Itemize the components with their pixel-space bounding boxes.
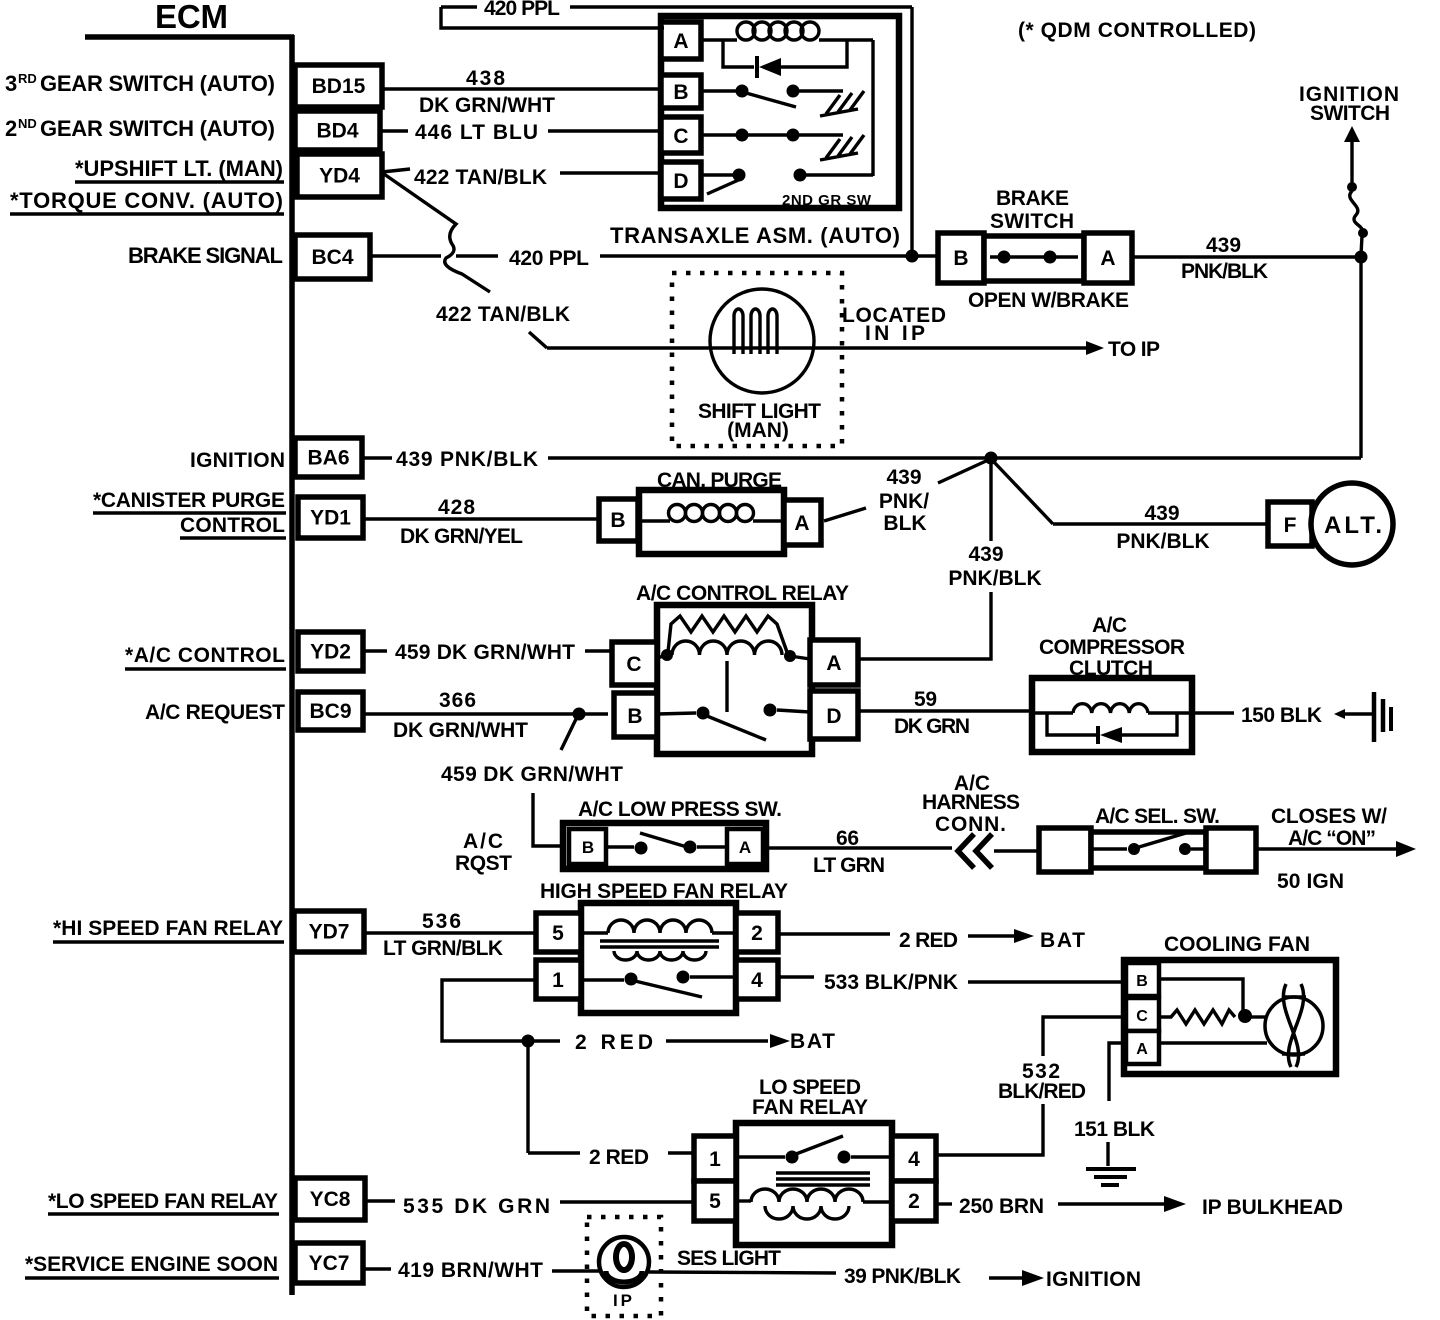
ECM pin BA6 xyxy=(295,438,362,477)
wire 428 DK GRN/YEL xyxy=(363,496,599,548)
svg-text:4: 4 xyxy=(908,1148,920,1171)
lo relay switch xyxy=(736,1136,892,1164)
junction node 2 RED xyxy=(522,1035,535,1048)
transaxle 2nd gr sw (pin D row) xyxy=(701,169,873,195)
case ground rake upper xyxy=(820,91,864,116)
svg-text:BC9: BC9 xyxy=(309,700,351,723)
label a/c rqst xyxy=(455,830,512,875)
wire label to junction xyxy=(938,461,986,483)
ECM pin YD1 xyxy=(298,497,363,538)
wire 422 TAN/BLK YD4 to pin D xyxy=(382,166,661,189)
svg-text:39 PNK/BLK: 39 PNK/BLK xyxy=(844,1265,961,1288)
label lo speed fan relay xyxy=(48,1190,279,1214)
ECM connector vertical edge line xyxy=(289,35,295,1295)
label closes w/ a/c on xyxy=(1271,805,1387,850)
transaxle pin C xyxy=(661,117,701,153)
svg-text:RD: RD xyxy=(18,71,37,86)
a/c relay switch xyxy=(657,704,810,741)
svg-text:B: B xyxy=(582,838,594,857)
label hi speed fan relay xyxy=(53,917,284,942)
svg-text:BAT: BAT xyxy=(790,1030,835,1053)
svg-text:428: 428 xyxy=(438,496,475,519)
svg-text:CAN. PURGE: CAN. PURGE xyxy=(657,469,782,492)
svg-text:IP BULKHEAD: IP BULKHEAD xyxy=(1202,1196,1343,1219)
wire 150 BLK xyxy=(1192,704,1372,727)
wire bracket to transaxle pin A xyxy=(441,7,664,28)
svg-text:420 PPL: 420 PPL xyxy=(509,247,589,270)
transaxle outer box xyxy=(661,16,899,208)
svg-text:A/C “ON”: A/C “ON” xyxy=(1288,827,1376,850)
svg-text:2: 2 xyxy=(751,922,763,945)
svg-text:A: A xyxy=(826,652,841,675)
label ignition xyxy=(190,449,285,472)
a/c sel sw body xyxy=(1091,832,1206,868)
svg-text:2: 2 xyxy=(5,116,17,141)
label 50 ign xyxy=(1277,870,1344,893)
svg-text:CONTROL: CONTROL xyxy=(180,514,285,537)
svg-text:*TORQUE CONV. (AUTO): *TORQUE CONV. (AUTO) xyxy=(10,188,283,213)
label ignition switch xyxy=(1299,83,1399,125)
label qdm controlled xyxy=(1018,19,1256,42)
label 439 pnk/blk stack xyxy=(879,466,929,535)
ECM pin YC7 xyxy=(295,1243,363,1283)
svg-text:PNK/BLK: PNK/BLK xyxy=(1181,260,1268,283)
svg-text:A/C REQUEST: A/C REQUEST xyxy=(145,701,285,724)
wire squiggle YD4 branch xyxy=(384,174,490,292)
ECM pin YD7 xyxy=(294,911,364,952)
a/c relay pin C xyxy=(612,642,657,685)
svg-text:*CANISTER PURGE: *CANISTER PURGE xyxy=(93,489,285,512)
a/c sel sw left pin xyxy=(1039,828,1091,872)
wire pin1 to 2 RED junction xyxy=(442,980,835,1054)
svg-text:B: B xyxy=(953,247,968,270)
svg-text:YD7: YD7 xyxy=(309,921,350,944)
svg-text:F: F xyxy=(1284,514,1297,537)
shift light bulb xyxy=(710,289,814,393)
svg-text:4: 4 xyxy=(751,969,763,992)
svg-text:B: B xyxy=(673,81,688,104)
label upshift lt (man) xyxy=(75,156,284,182)
svg-text:439: 439 xyxy=(968,543,1003,566)
junction brake signal node xyxy=(906,250,919,263)
svg-text:439 PNK/BLK: 439 PNK/BLK xyxy=(396,448,538,471)
lo relay pin 1 xyxy=(694,1136,736,1181)
svg-text:PNK/: PNK/ xyxy=(879,490,929,513)
svg-text:(* QDM CONTROLLED): (* QDM CONTROLLED) xyxy=(1018,19,1256,42)
svg-text:5: 5 xyxy=(552,922,564,945)
a/c relay coil xyxy=(657,641,810,662)
fan resistor xyxy=(1159,1010,1235,1024)
svg-text:IN IP: IN IP xyxy=(865,322,925,345)
svg-text:BLK: BLK xyxy=(883,512,926,535)
canister purge body xyxy=(639,490,784,554)
label can purge xyxy=(657,469,782,492)
svg-text:535 DK GRN: 535 DK GRN xyxy=(403,1195,550,1218)
lo speed fan relay box xyxy=(736,1123,892,1245)
wire 446 LT BLU BD4 to pin C xyxy=(378,121,661,144)
case ground rake lower xyxy=(820,135,864,160)
svg-text:C: C xyxy=(626,653,641,676)
fan blades xyxy=(1282,984,1306,1067)
label service engine soon xyxy=(25,1253,279,1278)
svg-text:YD2: YD2 xyxy=(310,641,351,664)
svg-text:420 PPL: 420 PPL xyxy=(484,0,560,20)
a/c low press switch body xyxy=(563,823,766,869)
svg-text:LT GRN/BLK: LT GRN/BLK xyxy=(383,937,503,960)
svg-text:439: 439 xyxy=(1206,234,1241,257)
label brake switch xyxy=(990,187,1074,233)
hs relay switch xyxy=(581,971,736,998)
svg-text:422 TAN/BLK: 422 TAN/BLK xyxy=(414,166,547,189)
label lo speed fan relay xyxy=(752,1076,868,1119)
shift light dotted box xyxy=(672,273,842,446)
wire purge A to label xyxy=(824,508,866,521)
brake switch pin A xyxy=(1084,233,1132,283)
svg-text:SWITCH: SWITCH xyxy=(990,210,1074,233)
label transaxle asm (auto) xyxy=(610,223,900,248)
svg-text:FAN RELAY: FAN RELAY xyxy=(752,1096,868,1119)
svg-text:YD4: YD4 xyxy=(319,165,360,188)
hs relay pin 5 xyxy=(536,913,581,952)
wire 419 BRN/WHT xyxy=(363,1259,601,1282)
svg-text:DK GRN/WHT: DK GRN/WHT xyxy=(393,719,528,742)
svg-text:SES LIGHT: SES LIGHT xyxy=(677,1247,781,1270)
svg-text:C: C xyxy=(673,125,688,148)
wire 533 BLK/PNK xyxy=(778,971,1126,994)
svg-text:D: D xyxy=(826,705,841,728)
ECM pin YD2 xyxy=(298,632,363,671)
svg-text:59: 59 xyxy=(914,688,937,711)
wire junction down to relay pin A xyxy=(858,458,1042,659)
label a/c low press sw xyxy=(578,798,782,821)
svg-text:66: 66 xyxy=(836,827,859,850)
svg-text:438: 438 xyxy=(466,67,505,90)
label torque conv (auto) xyxy=(10,188,284,214)
label brake signal xyxy=(128,243,283,268)
svg-text:2: 2 xyxy=(908,1190,920,1213)
label canister purge control xyxy=(93,489,286,538)
label 2nd gr sw xyxy=(782,192,872,209)
wire 459 DK GRN/WHT YD2 xyxy=(363,641,612,664)
svg-text:D: D xyxy=(673,170,688,193)
earth ground 151 xyxy=(1086,1169,1136,1185)
svg-text:YC8: YC8 xyxy=(310,1188,351,1211)
svg-text:BA6: BA6 xyxy=(307,447,349,470)
svg-text:419 BRN/WHT: 419 BRN/WHT xyxy=(398,1259,543,1282)
canister purge pin B xyxy=(599,499,638,541)
svg-text:IGNITION: IGNITION xyxy=(1046,1268,1141,1291)
arrow to IP xyxy=(1086,338,1160,361)
label a/c control relay xyxy=(636,582,849,605)
high speed fan relay box xyxy=(581,903,736,1013)
svg-text:(MAN): (MAN) xyxy=(727,419,789,442)
svg-text:*UPSHIFT LT. (MAN): *UPSHIFT LT. (MAN) xyxy=(75,156,283,181)
label a/c harness conn xyxy=(922,772,1020,836)
ECM connector top edge line xyxy=(85,34,294,40)
svg-text:2 RED: 2 RED xyxy=(899,929,958,952)
wire 420 PPL brake signal row xyxy=(370,247,938,270)
label a/c compressor clutch xyxy=(1039,614,1185,680)
wire 250 BRN to ip bulkhead xyxy=(936,1195,1343,1219)
svg-text:A/C SEL. SW.: A/C SEL. SW. xyxy=(1095,805,1220,828)
label shift light (man) xyxy=(698,400,821,442)
transaxle inner bus wire xyxy=(871,40,874,176)
transaxle diode xyxy=(723,40,847,78)
wire 366 DK GRN/WHT BC9 xyxy=(363,689,608,742)
label 459 dk grn/wht branch xyxy=(441,763,623,786)
svg-text:RQST: RQST xyxy=(455,852,512,875)
svg-text:50 IGN: 50 IGN xyxy=(1277,870,1344,893)
transaxle pin D xyxy=(661,162,701,199)
svg-text:1: 1 xyxy=(552,969,564,992)
svg-text:ECM: ECM xyxy=(155,0,228,35)
svg-text:C: C xyxy=(1136,1008,1148,1025)
alternator pin F xyxy=(1268,502,1312,546)
lo relay pin 5 xyxy=(694,1181,736,1221)
hs relay pin 4 xyxy=(736,960,778,999)
fan wire A internal xyxy=(1159,1041,1267,1044)
canister purge coil xyxy=(639,505,784,522)
a/c relay pin B xyxy=(614,693,657,737)
svg-text:DK GRN/YEL: DK GRN/YEL xyxy=(400,525,523,548)
clutch coil xyxy=(1032,704,1192,713)
wire 438 BD15 to pin B xyxy=(382,67,661,117)
hs relay pin 2 xyxy=(736,913,778,952)
svg-text:TRANSAXLE ASM. (AUTO): TRANSAXLE ASM. (AUTO) xyxy=(610,223,900,248)
a/c compressor clutch box xyxy=(1032,678,1192,752)
transaxle pin A xyxy=(661,22,701,59)
ECM pin BC9 xyxy=(298,692,363,730)
wire 66 LT GRN xyxy=(766,827,952,877)
wire 2 RED pin2 to BAT xyxy=(778,929,1085,952)
svg-text:ND: ND xyxy=(18,116,37,131)
svg-text:366: 366 xyxy=(439,689,476,712)
ECM label xyxy=(155,0,228,35)
svg-text:GEAR SWITCH (AUTO): GEAR SWITCH (AUTO) xyxy=(40,71,275,96)
svg-text:A/C: A/C xyxy=(1092,614,1127,637)
svg-text:A: A xyxy=(1100,247,1115,270)
svg-text:YC7: YC7 xyxy=(309,1252,350,1275)
svg-text:CONN.: CONN. xyxy=(935,813,1006,836)
label a/c sel sw xyxy=(1095,805,1220,828)
svg-text:OPEN W/BRAKE: OPEN W/BRAKE xyxy=(968,289,1129,312)
label high speed fan relay xyxy=(540,880,788,903)
svg-text:*A/C CONTROL: *A/C CONTROL xyxy=(125,644,285,667)
brake switch body xyxy=(984,236,1084,281)
svg-text:250 BRN: 250 BRN xyxy=(959,1195,1044,1218)
a/c sel sw right pin xyxy=(1206,828,1256,872)
lo relay coil xyxy=(736,1189,892,1219)
lo relay pin 2 xyxy=(892,1181,936,1221)
ECM pin BC4 xyxy=(295,235,370,279)
cooling fan pin C xyxy=(1126,998,1159,1031)
hs relay pin 1 xyxy=(536,960,581,999)
a/c relay pin A xyxy=(810,640,858,685)
wire 420 PPL top label row xyxy=(441,0,912,20)
svg-text:TO IP: TO IP xyxy=(1108,338,1160,361)
cooling fan pin A xyxy=(1126,1031,1159,1064)
label a/c control xyxy=(125,644,286,669)
junction node 439 xyxy=(985,452,998,465)
svg-text:*SERVICE ENGINE SOON: *SERVICE ENGINE SOON xyxy=(25,1253,278,1276)
ECM pin YD4 xyxy=(297,154,382,197)
ECM pin YC8 xyxy=(295,1178,365,1220)
svg-text:HARNESS: HARNESS xyxy=(922,791,1020,814)
svg-text:A: A xyxy=(794,512,809,535)
svg-text:536: 536 xyxy=(422,910,461,933)
a/c control relay box xyxy=(657,605,812,754)
svg-text:HIGH SPEED FAN RELAY: HIGH SPEED FAN RELAY xyxy=(540,880,788,903)
svg-text:BRAKE SIGNAL: BRAKE SIGNAL xyxy=(128,243,283,268)
svg-text:BLK/RED: BLK/RED xyxy=(998,1080,1086,1103)
wire 151 BLK xyxy=(1074,1043,1155,1166)
label cooling fan xyxy=(1164,933,1310,956)
wire branch down to low press switch xyxy=(533,793,563,846)
wire 2 RED to lo relay pin 1 xyxy=(528,1146,694,1169)
label IP xyxy=(613,1291,632,1310)
wire closes w/ a/c on xyxy=(1256,841,1416,857)
low press sw pin B xyxy=(569,829,606,864)
ECM pin BD15 xyxy=(295,65,382,107)
case ground clutch xyxy=(1374,692,1391,742)
svg-text:2 RED: 2 RED xyxy=(589,1146,649,1169)
fan wire B internal xyxy=(1159,979,1243,1012)
svg-text:*LO SPEED FAN RELAY: *LO SPEED FAN RELAY xyxy=(48,1190,278,1213)
label 2nd gear switch xyxy=(5,116,275,141)
fan junction node xyxy=(1238,1009,1267,1023)
svg-text:3: 3 xyxy=(5,71,17,96)
svg-text:422 TAN/BLK: 422 TAN/BLK xyxy=(436,303,570,326)
svg-text:A/C CONTROL RELAY: A/C CONTROL RELAY xyxy=(636,582,849,605)
label a/c request xyxy=(145,701,285,724)
svg-text:459 DK GRN/WHT: 459 DK GRN/WHT xyxy=(441,763,623,786)
cooling fan pin B xyxy=(1126,963,1159,996)
wire ignition feed down xyxy=(1359,257,1362,458)
wire harness to sel sw xyxy=(994,849,1039,852)
low press sw pin A xyxy=(727,829,763,864)
svg-text:DK GRN/WHT: DK GRN/WHT xyxy=(419,94,555,117)
transaxle pin B xyxy=(661,75,701,108)
ignition switch squiggle wire xyxy=(1350,191,1368,255)
wire 536 LT GRN/BLK xyxy=(364,910,536,960)
svg-text:B: B xyxy=(627,705,642,728)
wire 439 PNK/BLK to alternator xyxy=(993,461,1268,553)
wire from top to brake signal junction xyxy=(910,7,913,256)
transaxle 2nd gear switch (pin C row) xyxy=(701,129,843,142)
svg-text:A/C LOW PRESS SW.: A/C LOW PRESS SW. xyxy=(578,798,782,821)
label ses light xyxy=(677,1247,781,1270)
wire 422 TAN/BLK to shift light xyxy=(436,303,1088,348)
svg-text:GEAR SWITCH (AUTO): GEAR SWITCH (AUTO) xyxy=(40,116,275,141)
fan motor circle xyxy=(1265,997,1323,1055)
svg-text:2ND GR SW: 2ND GR SW xyxy=(782,192,872,209)
svg-text:B: B xyxy=(610,509,625,532)
svg-text:COOLING FAN: COOLING FAN xyxy=(1164,933,1310,956)
alternator ALT xyxy=(1311,483,1393,565)
svg-text:439: 439 xyxy=(1144,502,1179,525)
svg-text:COMPRESSOR: COMPRESSOR xyxy=(1039,636,1185,659)
a/c relay armature link xyxy=(725,661,728,712)
label located in ip xyxy=(842,304,946,345)
wire 439 PNK/BLK brake to ignition xyxy=(1132,234,1361,283)
SES light dotted box xyxy=(587,1217,661,1316)
svg-text:A: A xyxy=(673,30,688,53)
svg-text:*HI SPEED FAN RELAY: *HI SPEED FAN RELAY xyxy=(53,917,283,940)
SES light bulb xyxy=(599,1237,649,1287)
svg-text:BAT: BAT xyxy=(1040,929,1085,952)
a/c relay resistor xyxy=(668,616,787,652)
lo relay pin 4 xyxy=(892,1136,936,1181)
hs relay coil xyxy=(581,920,736,933)
svg-text:B: B xyxy=(1136,973,1148,990)
svg-text:A: A xyxy=(1136,1041,1148,1058)
label open w/brake xyxy=(968,289,1129,312)
svg-text:BRAKE: BRAKE xyxy=(996,187,1069,210)
svg-text:A: A xyxy=(739,838,751,857)
transaxle solenoid coil xyxy=(701,22,873,40)
svg-text:CLOSES W/: CLOSES W/ xyxy=(1271,805,1387,828)
svg-text:459 DK GRN/WHT: 459 DK GRN/WHT xyxy=(395,641,575,664)
wire 439 PNK/BLK BA6 ignition row xyxy=(362,448,1361,471)
lo relay core xyxy=(776,1173,870,1185)
svg-text:SWITCH: SWITCH xyxy=(1310,102,1390,125)
svg-text:YD1: YD1 xyxy=(310,507,351,530)
ECM pin BD4 xyxy=(295,111,380,150)
svg-text:446 LT BLU: 446 LT BLU xyxy=(415,121,538,144)
svg-text:533 BLK/PNK: 533 BLK/PNK xyxy=(824,971,958,994)
svg-text:PNK/BLK: PNK/BLK xyxy=(1116,530,1209,553)
svg-text:BC4: BC4 xyxy=(311,246,353,269)
svg-text:5: 5 xyxy=(709,1190,721,1213)
wire 59 DK GRN xyxy=(858,688,1032,738)
wire 2 RED down to lo relay xyxy=(526,1041,529,1153)
svg-text:439: 439 xyxy=(886,466,921,489)
a/c relay pin D xyxy=(810,691,858,739)
svg-text:IGNITION: IGNITION xyxy=(190,449,285,472)
svg-text:BD15: BD15 xyxy=(312,75,366,98)
svg-text:1: 1 xyxy=(709,1148,721,1171)
arrow to ignition xyxy=(989,1268,1141,1291)
wire ses to 39 pnk/blk xyxy=(649,1265,961,1288)
svg-text:IP: IP xyxy=(613,1291,632,1310)
svg-text:150 BLK: 150 BLK xyxy=(1241,704,1322,727)
svg-text:LT GRN: LT GRN xyxy=(813,854,885,877)
transaxle 3rd gear switch (pin B row) xyxy=(701,85,843,108)
junction node 366/459 xyxy=(561,708,586,751)
svg-text:BD4: BD4 xyxy=(316,120,358,143)
low press sw contacts xyxy=(606,833,727,855)
hs relay lower winding xyxy=(614,951,706,960)
label 3rd gear switch xyxy=(5,71,275,96)
hs relay core xyxy=(600,941,719,947)
svg-text:151 BLK: 151 BLK xyxy=(1074,1118,1155,1141)
clutch diode xyxy=(1047,713,1177,744)
wire 532 BLK/RED xyxy=(936,1017,1126,1155)
harness connector chevrons xyxy=(958,834,992,868)
svg-text:DK GRN: DK GRN xyxy=(894,715,970,738)
svg-text:A/C: A/C xyxy=(463,830,503,853)
ignition switch arrow xyxy=(1344,126,1360,192)
wire 535 DK GRN xyxy=(365,1195,694,1218)
canister purge pin A xyxy=(784,500,821,545)
junction ignition feed node xyxy=(1355,251,1368,264)
cooling fan box xyxy=(1124,960,1336,1074)
brake switch pin B xyxy=(938,233,984,283)
svg-text:PNK/BLK: PNK/BLK xyxy=(948,567,1041,590)
